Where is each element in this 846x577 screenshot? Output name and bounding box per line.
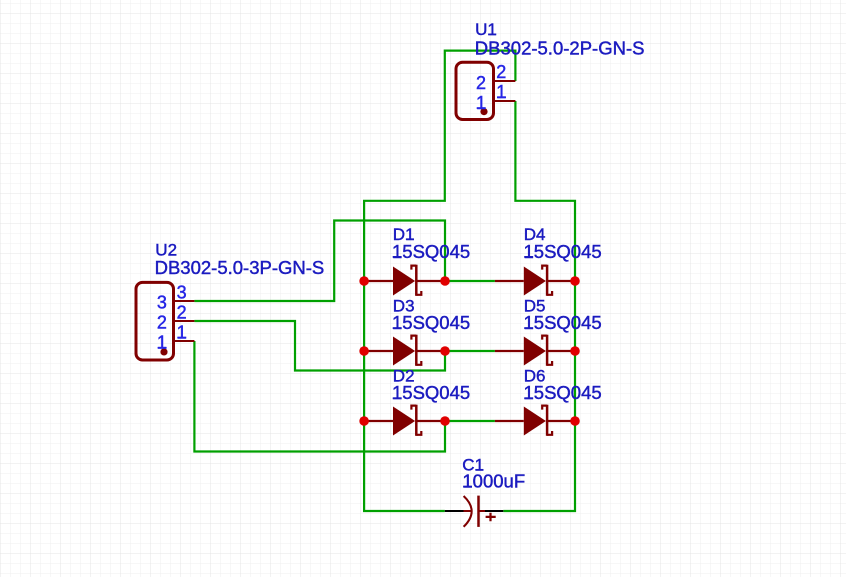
U2 pin number 1: [177, 323, 187, 343]
svg-text:2: 2: [177, 303, 187, 323]
C1 refdes label: [462, 456, 484, 475]
svg-text:2: 2: [496, 62, 506, 82]
wire net3 D1 cathode to D4 anode: [445, 280, 495, 282]
svg-text:15SQ045: 15SQ045: [392, 241, 470, 262]
D6 value label: [524, 382, 602, 403]
U1 pin name 1: [476, 93, 486, 113]
svg-text:1: 1: [476, 93, 486, 113]
connector U2 pin 1 stub: [174, 340, 195, 342]
junction dot D3 anode: [359, 346, 369, 356]
junction dot D3 cathode: [440, 346, 450, 356]
svg-text:1: 1: [177, 323, 187, 343]
connector U1 body: [456, 62, 494, 119]
connector U2 pin 2 stub: [174, 320, 195, 322]
junction dot D1 cathode: [440, 276, 450, 286]
svg-text:15SQ045: 15SQ045: [524, 241, 602, 262]
diode D2: [364, 405, 445, 436]
svg-text:15SQ045: 15SQ045: [392, 382, 470, 403]
junction dot D5 cathode: [570, 346, 580, 356]
svg-text:DB302-5.0-2P-GN-S: DB302-5.0-2P-GN-S: [475, 37, 645, 58]
wire net3 U2.3 to D1/D4 node: [194, 221, 445, 302]
D1 refdes label: [393, 225, 415, 244]
svg-text:3: 3: [177, 283, 187, 303]
svg-text:1: 1: [157, 333, 167, 353]
svg-text:15SQ045: 15SQ045: [524, 382, 602, 403]
D4 value label: [524, 241, 602, 262]
svg-text:2: 2: [476, 73, 486, 93]
diode D5: [495, 335, 576, 366]
svg-text:U1: U1: [475, 20, 497, 39]
diode D1: [364, 265, 445, 296]
junction dot D2 anode: [359, 416, 369, 426]
wire net4 D3 cathode to D5 anode: [445, 350, 495, 352]
wire net5 D2 cathode to D6 anode: [445, 420, 495, 422]
svg-text:15SQ045: 15SQ045: [392, 312, 470, 333]
U1 refdes label: [475, 20, 497, 39]
svg-text:1000uF: 1000uF: [462, 471, 525, 492]
D1 value label: [392, 241, 470, 262]
connector U2 pin 3 stub: [174, 300, 195, 302]
connector U2 body: [136, 282, 174, 360]
wire net1 U1.2 to diode anodes column: [364, 51, 515, 511]
diode D3: [364, 335, 445, 366]
junction dot D4 cathode: [570, 276, 580, 286]
wire net4 U2.2 to D3/D5 node: [194, 321, 445, 371]
junction dot D6 cathode: [570, 416, 580, 426]
U1 pin number 1: [496, 82, 506, 102]
junction dot D1 anode: [359, 276, 369, 286]
svg-text:3: 3: [157, 293, 167, 313]
diode D6: [495, 405, 576, 436]
svg-text:1: 1: [496, 82, 506, 102]
D2 value label: [392, 382, 470, 403]
junction dot D2 cathode: [440, 416, 450, 426]
connector U1 pin 2 stub: [494, 80, 516, 82]
svg-text:15SQ045: 15SQ045: [524, 312, 602, 333]
diode D4: [495, 265, 576, 296]
svg-text:2: 2: [157, 313, 167, 333]
capacitor C1: [445, 496, 504, 527]
U2 pin name 1: [157, 333, 167, 353]
connector U1 pin 1 stub: [494, 100, 516, 102]
wire net5 U2.1 to D2/D6 node: [194, 341, 445, 452]
D3 value label: [392, 312, 470, 333]
svg-text:DB302-5.0-3P-GN-S: DB302-5.0-3P-GN-S: [155, 257, 325, 278]
D5 value label: [524, 312, 602, 333]
C1 value label: [462, 471, 525, 492]
wire net2 U1.1 to diode cathodes column: [503, 101, 575, 511]
